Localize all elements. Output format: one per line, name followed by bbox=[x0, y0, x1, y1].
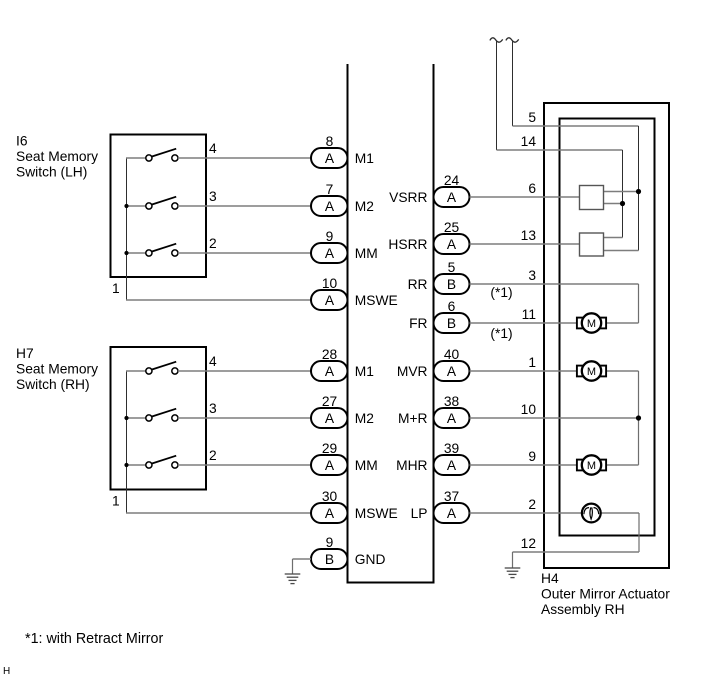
svg-text:MM: MM bbox=[355, 458, 378, 473]
connector pin 7/A M2 bbox=[311, 196, 348, 216]
wire pin14 to R2 upper bbox=[604, 237, 623, 239]
svg-text:FR: FR bbox=[409, 316, 427, 331]
svg-text:37: 37 bbox=[444, 489, 459, 504]
junction M+R common bbox=[636, 415, 641, 420]
ECU left bus bar bbox=[347, 64, 349, 583]
svg-text:MVR: MVR bbox=[397, 364, 428, 379]
svg-text:30: 30 bbox=[322, 489, 338, 504]
wire R1 out bottom bbox=[604, 203, 623, 205]
junction R1-bottom to pin14 drop bbox=[620, 201, 625, 206]
wire MHR pin9 bbox=[470, 464, 577, 466]
wire MHR motor right bbox=[606, 464, 638, 466]
wire GND pill to ground bbox=[293, 558, 312, 560]
svg-text:4: 4 bbox=[209, 354, 217, 369]
svg-text:A: A bbox=[325, 199, 335, 214]
svg-text:A: A bbox=[447, 506, 457, 521]
wire H7 pin1 to MSWE pill bbox=[126, 512, 311, 514]
svg-text:12: 12 bbox=[521, 536, 536, 551]
wire pin14 horizontal bbox=[497, 149, 623, 151]
switch I6 contact row pin2 bbox=[126, 252, 146, 254]
wire feed A vertical bbox=[512, 42, 514, 127]
svg-text:A: A bbox=[325, 151, 335, 166]
wire FR motor right bbox=[606, 322, 638, 324]
svg-text:LP: LP bbox=[411, 506, 428, 521]
connector pin 30/A MSWE bbox=[311, 503, 348, 523]
svg-text:1: 1 bbox=[112, 494, 120, 509]
ground symbol ECU bbox=[285, 573, 301, 575]
svg-text:H7: H7 bbox=[16, 346, 34, 361]
ground symbol H4 bbox=[505, 567, 521, 569]
svg-text:1: 1 bbox=[528, 355, 536, 370]
connector pin 9/A MM bbox=[311, 243, 348, 263]
wire H7 pin3 to M2 pill bbox=[178, 417, 311, 419]
wire lamp right bbox=[601, 512, 639, 514]
svg-text:B: B bbox=[325, 552, 334, 567]
svg-text:Switch (LH): Switch (LH) bbox=[16, 165, 87, 180]
svg-text:A: A bbox=[447, 411, 457, 426]
svg-text:6: 6 bbox=[448, 299, 456, 314]
connector pin 24/A VSRR bbox=[434, 187, 470, 207]
motor retract M1 bbox=[577, 318, 584, 329]
connector pin 37/A LP bbox=[434, 503, 470, 523]
wire H7 pin2 to MM pill bbox=[178, 464, 311, 466]
svg-text:A: A bbox=[325, 293, 335, 308]
wire I6 pin4 to M1 pill bbox=[178, 157, 311, 159]
connector pin 25/A HSRR bbox=[434, 234, 470, 254]
svg-text:Switch (RH): Switch (RH) bbox=[16, 377, 90, 392]
svg-text:A: A bbox=[325, 364, 335, 379]
svg-text:8: 8 bbox=[326, 134, 334, 149]
svg-text:3: 3 bbox=[209, 401, 217, 416]
junction I6 row2 bbox=[124, 251, 128, 255]
svg-text:I6: I6 bbox=[16, 134, 28, 149]
svg-text:3: 3 bbox=[528, 268, 536, 283]
svg-text:GND: GND bbox=[355, 552, 386, 567]
junction I6 row3 bbox=[124, 204, 128, 208]
switch I6 box bbox=[111, 135, 207, 278]
svg-text:MSWE: MSWE bbox=[355, 293, 398, 308]
svg-text:3: 3 bbox=[209, 189, 217, 204]
svg-text:(*1): (*1) bbox=[490, 326, 512, 341]
svg-text:Assembly RH: Assembly RH bbox=[541, 602, 625, 617]
svg-text:5: 5 bbox=[528, 110, 536, 125]
connector pin 39/A MHR bbox=[434, 455, 470, 475]
connector pin 40/A MVR bbox=[434, 361, 470, 381]
svg-text:Seat Memory: Seat Memory bbox=[16, 149, 98, 164]
actuator H4 inner box bbox=[560, 119, 655, 536]
svg-text:M2: M2 bbox=[355, 411, 374, 426]
switch H7 contact row pin4 bbox=[126, 370, 146, 372]
wire pin5 horizontal bbox=[513, 125, 639, 127]
svg-text:B: B bbox=[447, 277, 456, 292]
wire ground drop bbox=[292, 559, 294, 574]
svg-text:11: 11 bbox=[522, 307, 536, 322]
svg-text:H4: H4 bbox=[541, 571, 559, 586]
svg-text:A: A bbox=[447, 458, 457, 473]
svg-text:M: M bbox=[587, 460, 596, 472]
actuator H4 outer box bbox=[544, 103, 669, 568]
svg-text:9: 9 bbox=[326, 535, 334, 550]
switch H7 contact row pin2 bbox=[126, 464, 146, 466]
wire pin14 drop bbox=[622, 150, 624, 238]
wire pin5 drop bbox=[638, 126, 640, 251]
svg-text:1: 1 bbox=[112, 281, 120, 296]
connector pin 6/B FR bbox=[434, 313, 470, 333]
wire I6 pin2 to MM pill bbox=[178, 252, 311, 254]
motor horizontal M3 bbox=[577, 460, 584, 471]
connector pin 29/A MM bbox=[311, 455, 348, 475]
svg-text:M: M bbox=[587, 318, 596, 330]
switch H7 contact row pin3 bbox=[126, 417, 146, 419]
wire feed B vertical bbox=[496, 42, 498, 151]
svg-text:(*1): (*1) bbox=[490, 285, 512, 300]
lamp LP bbox=[582, 504, 601, 523]
svg-text:M+R: M+R bbox=[398, 411, 428, 426]
svg-text:14: 14 bbox=[521, 134, 537, 149]
svg-text:7: 7 bbox=[326, 182, 334, 197]
svg-text:M2: M2 bbox=[355, 199, 374, 214]
wire LP pin2 bbox=[470, 512, 582, 514]
svg-text:*1: with Retract Mirror: *1: with Retract Mirror bbox=[25, 631, 163, 647]
svg-text:24: 24 bbox=[444, 173, 460, 188]
svg-text:B: B bbox=[447, 316, 456, 331]
resistor block VSRR bbox=[580, 186, 604, 210]
svg-text:9: 9 bbox=[528, 449, 536, 464]
junction H7 row2 bbox=[124, 463, 128, 467]
connector pin 8/A M1 bbox=[311, 148, 348, 168]
svg-text:13: 13 bbox=[521, 228, 537, 243]
motor vertical M2 bbox=[577, 366, 584, 377]
svg-text:A: A bbox=[447, 190, 457, 205]
wire MVR motor right bbox=[606, 370, 638, 372]
connector pin 38/A M+R bbox=[434, 408, 470, 428]
svg-text:A: A bbox=[447, 364, 457, 379]
wire RR to FR motor bbox=[638, 284, 640, 323]
svg-text:2: 2 bbox=[209, 448, 217, 463]
wire R1 out top bbox=[604, 191, 639, 193]
svg-text:H: H bbox=[3, 666, 10, 677]
wire I6 pin3 to M2 pill bbox=[178, 205, 311, 207]
switch H7 box bbox=[111, 347, 207, 490]
connector pin 27/A M2 bbox=[311, 408, 348, 428]
junction R1-top to pin5 drop bbox=[636, 189, 641, 194]
svg-text:2: 2 bbox=[209, 236, 217, 251]
svg-text:40: 40 bbox=[444, 347, 460, 362]
wire HSRR pin13 bbox=[470, 243, 580, 245]
svg-text:Seat Memory: Seat Memory bbox=[16, 362, 98, 377]
switch I6 internal bus wire bbox=[126, 158, 128, 300]
svg-text:A: A bbox=[447, 237, 457, 252]
break symbol wire B bbox=[490, 38, 503, 42]
svg-text:39: 39 bbox=[444, 441, 460, 456]
switch H7 internal bus wire bbox=[126, 371, 128, 513]
svg-text:2: 2 bbox=[528, 497, 536, 512]
junction H7 row3 bbox=[124, 416, 128, 420]
wire H7 pin4 to M1 pill bbox=[178, 370, 311, 372]
svg-text:M1: M1 bbox=[355, 364, 374, 379]
wire motor common drop bbox=[638, 371, 640, 465]
svg-text:VSRR: VSRR bbox=[389, 190, 427, 205]
svg-text:A: A bbox=[325, 458, 335, 473]
resistor block HSRR bbox=[580, 233, 604, 256]
wire RR pin3 bbox=[470, 283, 639, 285]
svg-text:RR: RR bbox=[408, 277, 428, 292]
wire pin12 horizontal bbox=[513, 551, 640, 553]
svg-text:M1: M1 bbox=[355, 151, 374, 166]
svg-text:6: 6 bbox=[528, 181, 536, 196]
switch I6 contact row pin3 bbox=[126, 205, 146, 207]
svg-text:A: A bbox=[325, 246, 335, 261]
svg-text:A: A bbox=[325, 411, 335, 426]
connector pin 28/A M1 bbox=[311, 361, 348, 381]
wire pin5 to R2 lower bbox=[604, 250, 639, 252]
svg-text:Outer Mirror Actuator: Outer Mirror Actuator bbox=[541, 587, 670, 602]
wire I6 pin1 to MSWE pill bbox=[126, 299, 311, 301]
wire lamp to pin12 bbox=[638, 513, 640, 552]
svg-text:9: 9 bbox=[326, 229, 334, 244]
svg-text:27: 27 bbox=[322, 394, 337, 409]
connector pin 5/B RR bbox=[434, 274, 470, 294]
svg-text:38: 38 bbox=[444, 394, 460, 409]
break symbol wire A bbox=[506, 38, 519, 42]
svg-text:5: 5 bbox=[448, 260, 456, 275]
svg-text:M: M bbox=[587, 366, 596, 378]
connector pin 9/B GND bbox=[311, 549, 348, 569]
svg-text:10: 10 bbox=[322, 276, 338, 291]
svg-text:A: A bbox=[325, 506, 335, 521]
switch I6 contact row pin4 bbox=[126, 157, 146, 159]
svg-text:MSWE: MSWE bbox=[355, 506, 398, 521]
wire FR pin11 bbox=[470, 322, 577, 324]
svg-text:25: 25 bbox=[444, 220, 460, 235]
svg-text:28: 28 bbox=[322, 347, 338, 362]
ECU bottom edge bbox=[347, 582, 435, 584]
wire M+R pin10 bbox=[470, 417, 639, 419]
connector pin 10/A MSWE bbox=[311, 290, 348, 310]
svg-text:HSRR: HSRR bbox=[388, 237, 427, 252]
svg-text:29: 29 bbox=[322, 441, 338, 456]
svg-text:MM: MM bbox=[355, 246, 378, 261]
ECU right bus bar bbox=[433, 64, 435, 583]
wire pin12 ground drop bbox=[512, 552, 514, 568]
svg-text:10: 10 bbox=[521, 402, 537, 417]
wire MVR pin1 bbox=[470, 370, 577, 372]
svg-text:4: 4 bbox=[209, 141, 217, 156]
wire VSRR pin6 bbox=[470, 196, 580, 198]
svg-text:MHR: MHR bbox=[396, 458, 427, 473]
